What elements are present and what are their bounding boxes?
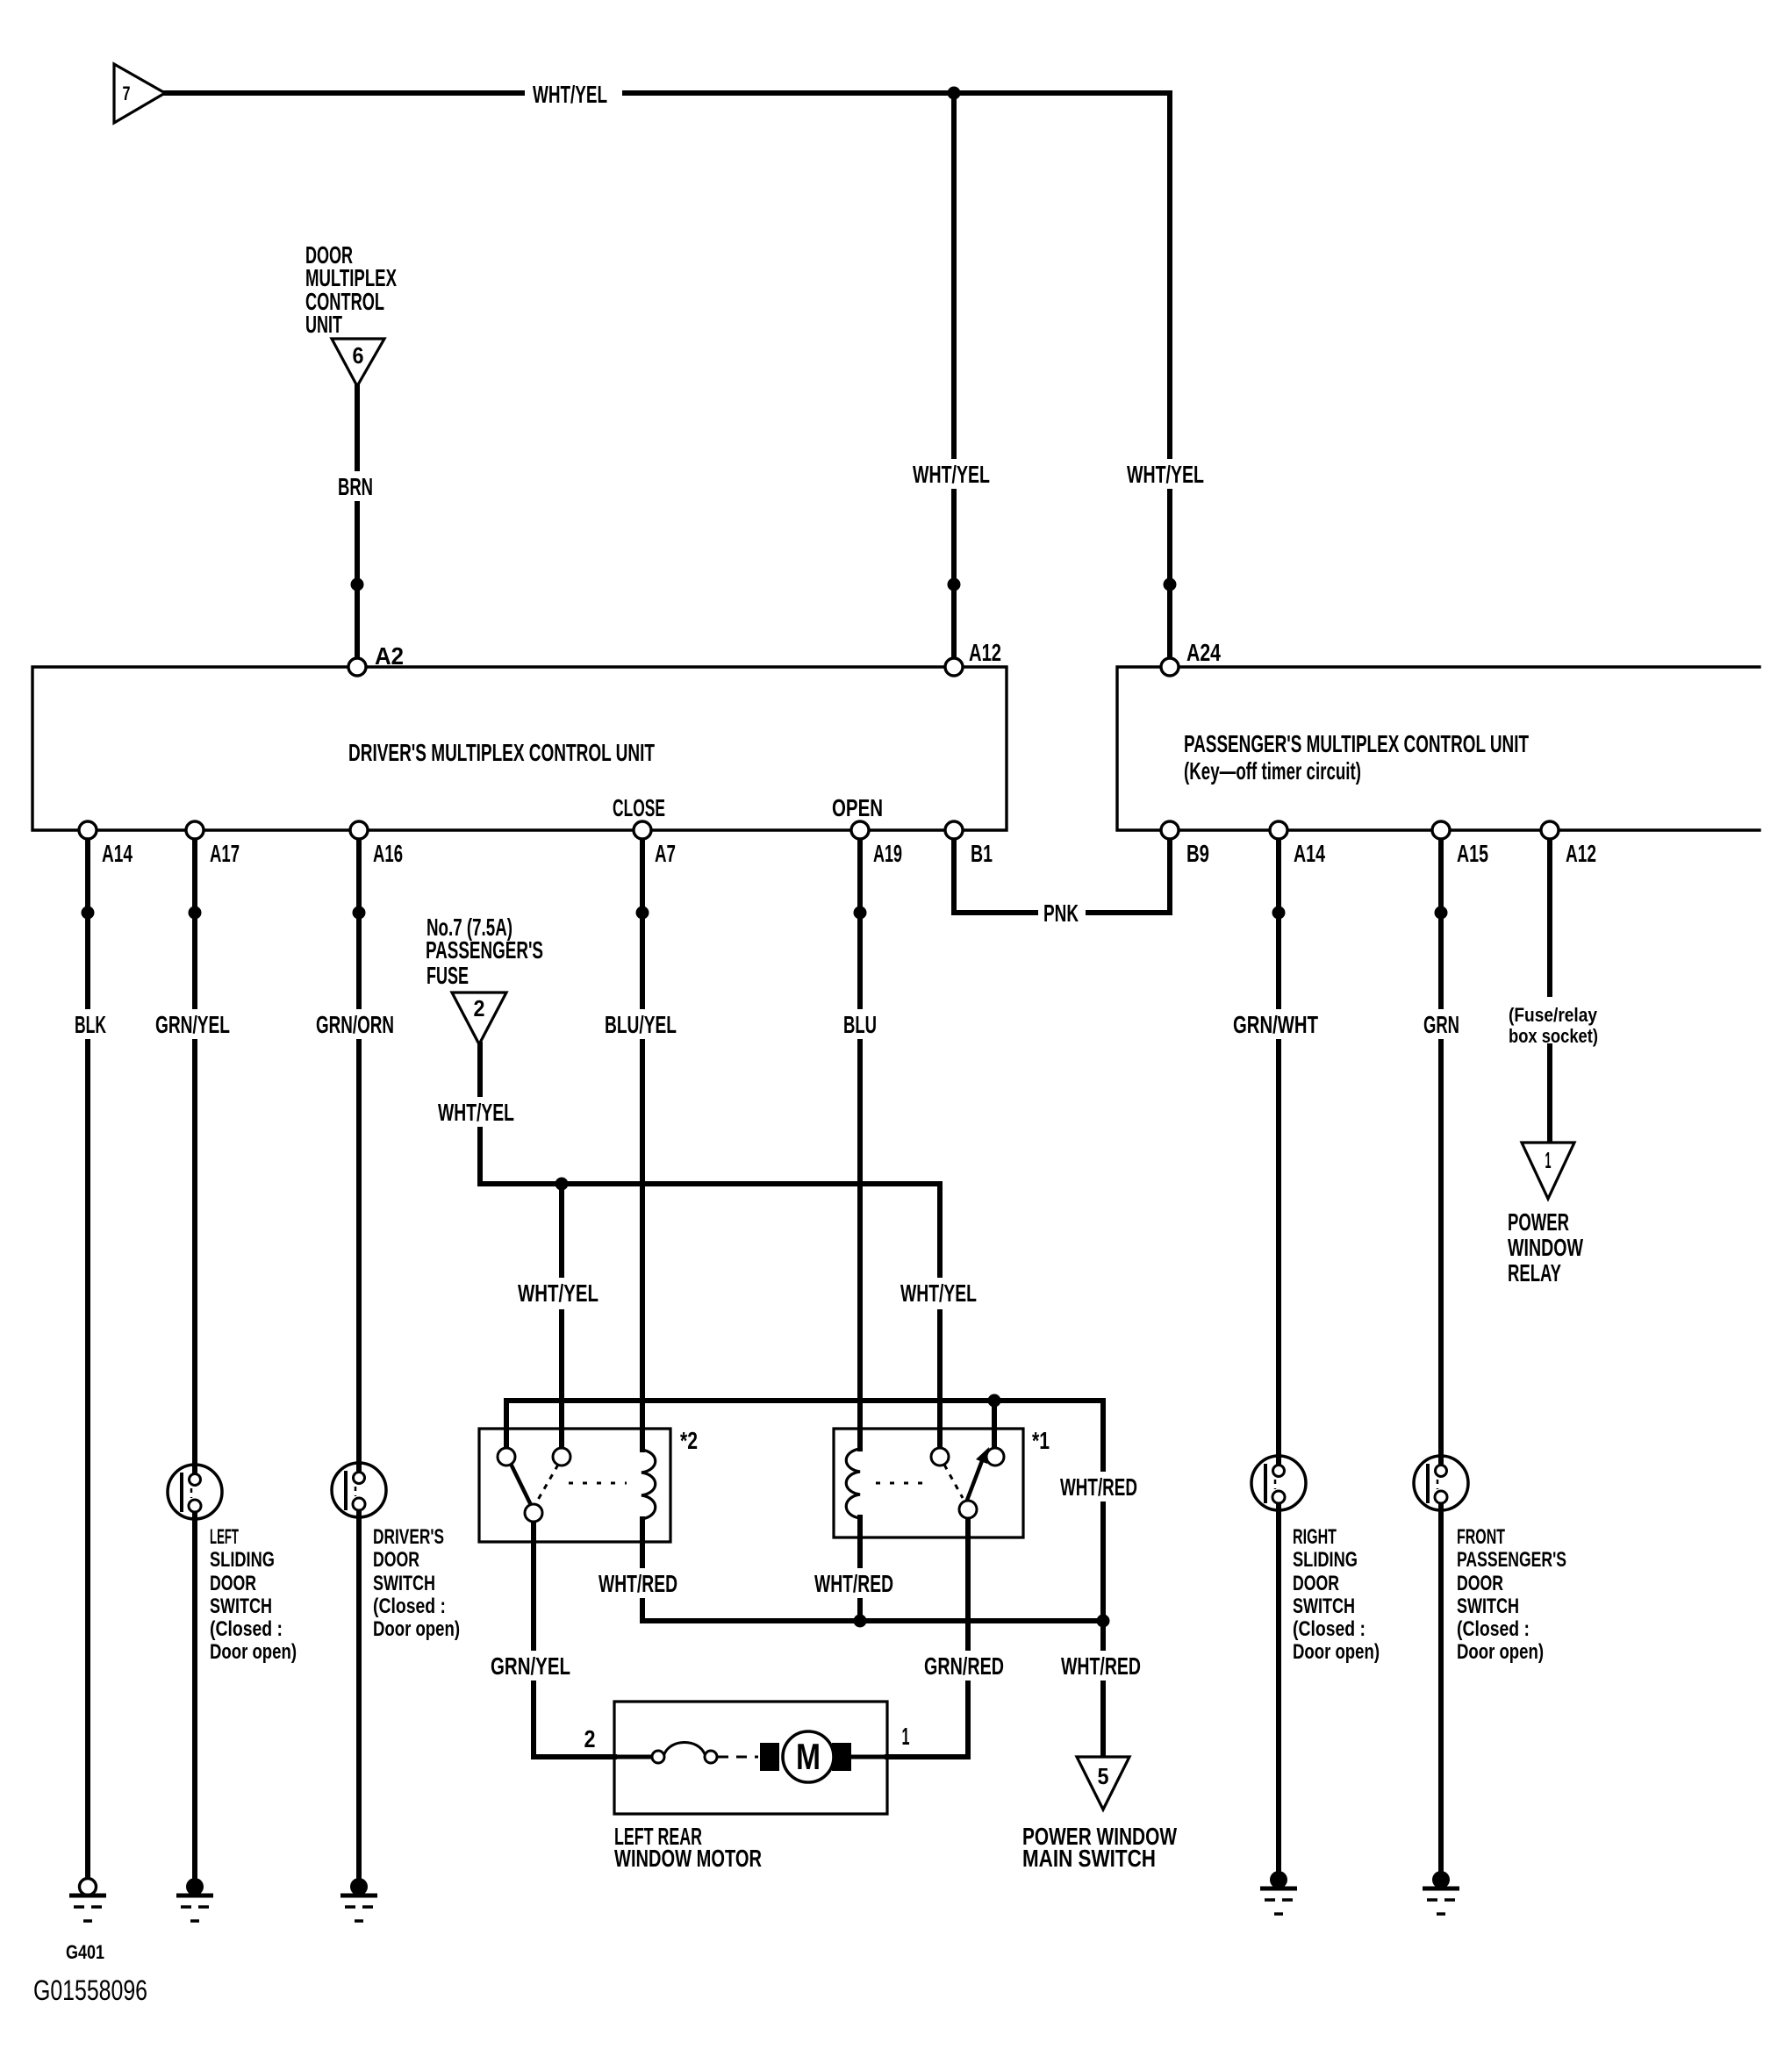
svg-text:(Fuse/relay: (Fuse/relay bbox=[1509, 1004, 1598, 1026]
svg-text:G01558096: G01558096 bbox=[33, 1974, 147, 2006]
svg-text:MAIN SWITCH: MAIN SWITCH bbox=[1022, 1845, 1156, 1872]
svg-text:LEFT: LEFT bbox=[210, 1525, 239, 1549]
svg-text:GRN/ORN: GRN/ORN bbox=[316, 1011, 394, 1038]
svg-text:Door open): Door open) bbox=[373, 1617, 460, 1641]
svg-text:WHT/YEL: WHT/YEL bbox=[518, 1279, 599, 1307]
svg-text:A14: A14 bbox=[102, 840, 133, 867]
svg-text:PASSENGER'S: PASSENGER'S bbox=[1457, 1548, 1566, 1572]
svg-text:CLOSE: CLOSE bbox=[613, 794, 665, 821]
svg-text:*2: *2 bbox=[680, 1427, 698, 1454]
svg-text:WHT/YEL: WHT/YEL bbox=[1127, 461, 1204, 488]
svg-text:A16: A16 bbox=[373, 840, 403, 867]
svg-text:Door open): Door open) bbox=[1457, 1640, 1544, 1664]
svg-text:5: 5 bbox=[1098, 1763, 1109, 1789]
svg-text:WHT/RED: WHT/RED bbox=[599, 1570, 677, 1597]
svg-text:GRN/YEL: GRN/YEL bbox=[155, 1011, 230, 1038]
svg-text:BRN: BRN bbox=[338, 473, 373, 500]
svg-text:A12: A12 bbox=[1566, 840, 1596, 867]
svg-text:WHT/YEL: WHT/YEL bbox=[913, 461, 990, 488]
svg-text:FRONT: FRONT bbox=[1457, 1525, 1505, 1549]
svg-text:POWER: POWER bbox=[1508, 1208, 1569, 1236]
svg-text:SWITCH: SWITCH bbox=[1293, 1595, 1355, 1618]
svg-text:WHT/RED: WHT/RED bbox=[1060, 1473, 1137, 1501]
svg-text:A12: A12 bbox=[969, 639, 1001, 666]
svg-text:WINDOW MOTOR: WINDOW MOTOR bbox=[614, 1845, 762, 1872]
svg-text:A17: A17 bbox=[210, 840, 240, 867]
svg-text:BLK: BLK bbox=[75, 1011, 106, 1038]
svg-text:WHT/RED: WHT/RED bbox=[1061, 1652, 1141, 1680]
svg-text:A19: A19 bbox=[873, 840, 902, 867]
svg-text:BLU: BLU bbox=[843, 1011, 877, 1038]
svg-text:BLU/YEL: BLU/YEL bbox=[605, 1011, 677, 1038]
svg-text:DOOR: DOOR bbox=[1457, 1572, 1503, 1595]
svg-text:A15: A15 bbox=[1457, 840, 1488, 867]
svg-text:GRN/WHT: GRN/WHT bbox=[1233, 1011, 1318, 1038]
svg-text:WHT/RED: WHT/RED bbox=[814, 1570, 893, 1597]
svg-text:GRN/RED: GRN/RED bbox=[924, 1652, 1004, 1680]
svg-text:SLIDING: SLIDING bbox=[210, 1548, 275, 1572]
svg-text:SWITCH: SWITCH bbox=[373, 1572, 435, 1595]
svg-text:SLIDING: SLIDING bbox=[1293, 1548, 1358, 1572]
svg-text:Door open): Door open) bbox=[1293, 1640, 1380, 1664]
svg-text:(Closed :: (Closed : bbox=[1293, 1617, 1366, 1641]
svg-text:A14: A14 bbox=[1294, 840, 1325, 867]
svg-text:A2: A2 bbox=[375, 642, 404, 670]
svg-text:PASSENGER'S MULTIPLEX CONTROL: PASSENGER'S MULTIPLEX CONTROL UNIT bbox=[1184, 730, 1529, 757]
svg-text:FUSE: FUSE bbox=[426, 962, 469, 989]
svg-text:B1: B1 bbox=[971, 840, 993, 867]
svg-text:DOOR: DOOR bbox=[373, 1548, 419, 1572]
svg-text:DRIVER'S: DRIVER'S bbox=[373, 1525, 444, 1549]
svg-text:1: 1 bbox=[902, 1723, 910, 1750]
svg-text:M: M bbox=[796, 1736, 821, 1777]
svg-text:SWITCH: SWITCH bbox=[1457, 1595, 1519, 1618]
svg-text:A7: A7 bbox=[655, 840, 676, 867]
svg-text:A24: A24 bbox=[1186, 639, 1221, 666]
svg-text:box socket): box socket) bbox=[1509, 1025, 1598, 1047]
svg-text:Door open): Door open) bbox=[210, 1640, 297, 1664]
svg-text:GRN/YEL: GRN/YEL bbox=[491, 1652, 570, 1680]
svg-text:1: 1 bbox=[1545, 1147, 1552, 1173]
svg-text:(Key—off timer circuit): (Key—off timer circuit) bbox=[1184, 757, 1361, 785]
svg-text:RIGHT: RIGHT bbox=[1293, 1525, 1337, 1549]
svg-text:B9: B9 bbox=[1186, 840, 1209, 867]
svg-text:PNK: PNK bbox=[1043, 899, 1079, 927]
svg-text:(Closed :: (Closed : bbox=[1457, 1617, 1530, 1641]
svg-text:WHT/YEL: WHT/YEL bbox=[533, 81, 607, 108]
svg-text:DOOR: DOOR bbox=[1293, 1572, 1339, 1595]
svg-text:(Closed :: (Closed : bbox=[210, 1617, 283, 1641]
svg-text:2: 2 bbox=[474, 995, 485, 1021]
svg-text:UNIT: UNIT bbox=[305, 311, 342, 338]
svg-text:DRIVER'S MULTIPLEX CONTROL UNI: DRIVER'S MULTIPLEX CONTROL UNIT bbox=[348, 739, 655, 766]
svg-text:*1: *1 bbox=[1032, 1427, 1050, 1454]
svg-text:6: 6 bbox=[353, 342, 364, 369]
svg-text:2: 2 bbox=[584, 1725, 596, 1752]
svg-text:WHT/YEL: WHT/YEL bbox=[438, 1099, 514, 1126]
svg-text:(Closed :: (Closed : bbox=[373, 1595, 446, 1618]
svg-text:7: 7 bbox=[123, 82, 131, 104]
svg-text:RELAY: RELAY bbox=[1508, 1259, 1561, 1286]
svg-text:SWITCH: SWITCH bbox=[210, 1595, 272, 1618]
svg-text:WINDOW: WINDOW bbox=[1508, 1234, 1583, 1261]
svg-text:GRN: GRN bbox=[1423, 1011, 1459, 1038]
svg-text:WHT/YEL: WHT/YEL bbox=[900, 1279, 977, 1307]
svg-text:OPEN: OPEN bbox=[832, 794, 883, 821]
svg-text:DOOR: DOOR bbox=[210, 1572, 256, 1595]
svg-text:G401: G401 bbox=[66, 1941, 104, 1963]
svg-text:PASSENGER'S: PASSENGER'S bbox=[426, 936, 543, 964]
